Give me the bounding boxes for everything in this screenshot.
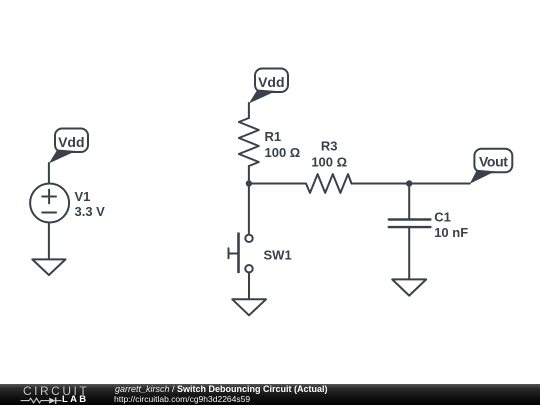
label V1 3.3 V: [75, 189, 106, 219]
svg-text:SW1: SW1: [264, 248, 292, 263]
wire Vdd to V1: [48, 163, 50, 184]
logo resistor-diode line: [21, 397, 62, 403]
wire Vdd to R1: [248, 103, 250, 118]
footer url text: [114, 394, 250, 404]
net label Vdd at V1: [49, 129, 88, 164]
footer bar: [0, 384, 540, 405]
wire node A to SW1: [248, 184, 250, 235]
label C1 10 nF: [434, 210, 468, 240]
switch SW1: [229, 233, 253, 274]
CircuitLab logo: [23, 384, 89, 398]
label R1 100 Ohm: [265, 129, 301, 160]
wire R3 to Vout: [352, 183, 470, 185]
svg-text:R1: R1: [265, 129, 282, 144]
svg-text:100 Ω: 100 Ω: [311, 155, 347, 170]
node A junction: [246, 180, 252, 186]
wire V1 to ground: [48, 223, 50, 260]
svg-text:100 Ω: 100 Ω: [265, 145, 301, 160]
svg-text:Vout: Vout: [479, 154, 508, 170]
svg-text:3.3 V: 3.3 V: [75, 204, 106, 219]
svg-text:10 nF: 10 nF: [434, 225, 468, 240]
resistor R1: [239, 118, 259, 166]
ground (C1): [392, 279, 426, 295]
net label Vout: [470, 149, 513, 184]
svg-text:C1: C1: [434, 210, 451, 225]
wire C1 to ground: [408, 227, 410, 279]
ground (SW1): [232, 299, 266, 315]
wire R1 to node A: [248, 166, 250, 184]
svg-text:Vdd: Vdd: [58, 134, 84, 150]
resistor R3: [306, 174, 352, 193]
wire SW1 to ground: [248, 272, 250, 299]
ground (V1): [32, 259, 65, 275]
wire node B to C1: [408, 184, 410, 220]
net label Vdd at R1: [249, 69, 288, 104]
svg-text:Vdd: Vdd: [258, 74, 284, 90]
label R3 100 Ohm: [311, 139, 347, 170]
svg-text:R3: R3: [321, 139, 338, 154]
footer title text: [115, 384, 328, 394]
wire node A to R3: [249, 183, 306, 185]
svg-text:V1: V1: [75, 189, 91, 204]
capacitor C1: [389, 220, 431, 228]
node B junction: [406, 180, 412, 186]
voltage source V1: [30, 184, 69, 223]
